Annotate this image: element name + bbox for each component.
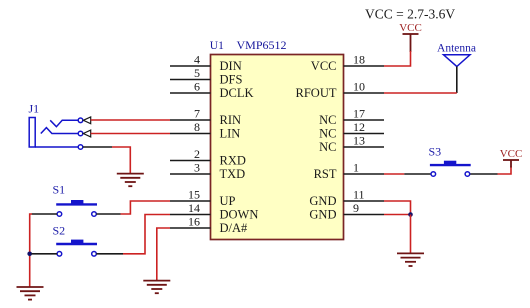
svg-text:14: 14: [188, 201, 200, 215]
IC U1 body: [211, 55, 344, 240]
svg-text:18: 18: [353, 53, 365, 67]
U1 pin 10 stub: [344, 92, 385, 94]
input arrow RIN: [83, 117, 90, 124]
wire GND node down: [410, 215, 412, 254]
svg-text:DCLK: DCLK: [220, 86, 254, 100]
svg-text:Antenna: Antenna: [437, 42, 476, 54]
svg-text:VMP6512: VMP6512: [237, 38, 287, 52]
svg-text:S1: S1: [53, 183, 66, 197]
svg-text:NC: NC: [319, 127, 336, 141]
junction GND node: [408, 212, 413, 217]
ground symbol (left rail): [17, 287, 44, 300]
svg-text:16: 16: [188, 215, 200, 229]
svg-text:S3: S3: [429, 145, 442, 159]
U1 pin 3 stub: [170, 173, 211, 175]
wire S3 to VCC: [498, 167, 512, 175]
wire RIN: [91, 119, 170, 121]
wire pin11 GND: [384, 201, 411, 215]
svg-text:13: 13: [353, 134, 365, 148]
svg-text:10: 10: [353, 80, 365, 94]
svg-text:RFOUT: RFOUT: [296, 86, 337, 100]
svg-text:4: 4: [194, 53, 200, 67]
svg-text:VCC: VCC: [500, 148, 523, 160]
wire pin18 to VCC: [384, 51, 411, 66]
ground symbol (under J1 sleeve): [117, 174, 144, 187]
svg-text:VCC = 2.7-3.6V: VCC = 2.7-3.6V: [365, 7, 455, 22]
U1 pin 16 stub: [170, 227, 211, 229]
svg-text:1: 1: [353, 161, 359, 175]
U1 left pin name labels: [220, 59, 259, 235]
svg-text:VCC: VCC: [399, 22, 422, 34]
wire J1 sleeve (black part): [83, 146, 112, 148]
svg-text:2: 2: [194, 147, 200, 161]
junction left rail node: [27, 252, 32, 257]
wire S1 to pin15 UP: [121, 201, 171, 214]
wire S1 left: [32, 213, 58, 215]
U1 pin 2 stub: [170, 160, 211, 162]
U1 pin 12 stub: [344, 133, 385, 135]
wire J1 sleeve to ground: [112, 147, 130, 174]
U1 pin 1 stub: [344, 173, 385, 175]
input arrow LIN: [83, 130, 90, 137]
antenna lead wire: [456, 67, 458, 94]
power VCC symbol (right): [503, 160, 519, 168]
svg-text:17: 17: [353, 107, 365, 121]
svg-text:5: 5: [194, 66, 200, 80]
svg-text:9: 9: [353, 201, 359, 215]
svg-text:VCC: VCC: [311, 59, 337, 73]
antenna symbol: [444, 55, 471, 67]
svg-text:3: 3: [194, 161, 200, 175]
switch S1: [56, 200, 97, 216]
svg-text:S2: S2: [53, 224, 66, 238]
svg-text:RIN: RIN: [220, 113, 242, 127]
ground symbol (under D/A#): [143, 281, 170, 294]
svg-text:GND: GND: [309, 208, 336, 222]
U1 pin 17 stub: [344, 119, 385, 121]
connector J1 (phone jack): [29, 118, 83, 150]
U1 pin 14 stub: [170, 214, 211, 216]
wire left rail to ground: [30, 214, 32, 287]
U1 pin 9 stub: [344, 214, 385, 216]
svg-text:12: 12: [353, 120, 365, 134]
wire S1 right (black part): [96, 213, 120, 215]
svg-text:U1: U1: [210, 40, 224, 52]
svg-text:7: 7: [194, 107, 200, 121]
U1 pin 5 stub: [170, 79, 211, 81]
svg-text:DOWN: DOWN: [220, 208, 259, 222]
svg-text:RXD: RXD: [220, 154, 246, 168]
svg-text:GND: GND: [309, 194, 336, 208]
switch S3: [404, 161, 497, 177]
svg-text:NC: NC: [319, 113, 336, 127]
U1 pin 7 stub: [170, 119, 211, 121]
U1 pin 4 stub: [170, 65, 211, 67]
wire pin9 GND: [384, 214, 411, 216]
U1 pin 18 stub: [344, 65, 385, 67]
U1 pin 11 stub: [344, 200, 385, 202]
wire S2 right (black part): [96, 253, 123, 255]
U1 pin 13 stub: [344, 146, 385, 148]
svg-text:11: 11: [353, 188, 365, 202]
svg-text:6: 6: [194, 80, 200, 94]
wire pin10 RFOUT to antenna: [384, 92, 457, 94]
svg-text:J1: J1: [29, 101, 40, 115]
svg-text:DFS: DFS: [220, 73, 243, 87]
wire S2 to pin14 DOWN: [123, 215, 170, 254]
wire pin16 D/A# to ground: [157, 228, 170, 281]
U1 pin 15 stub: [170, 200, 211, 202]
U1 pin 8 stub: [170, 133, 211, 135]
svg-text:D/A#: D/A#: [220, 221, 249, 235]
U1 pin 6 stub: [170, 92, 211, 94]
wire pin1 RST to S3: [384, 173, 404, 175]
switch S2: [56, 240, 97, 257]
svg-text:LIN: LIN: [220, 127, 241, 141]
svg-text:8: 8: [194, 120, 200, 134]
wire S2 left: [32, 253, 58, 255]
svg-text:RST: RST: [314, 167, 337, 181]
svg-text:15: 15: [188, 188, 200, 202]
svg-text:TXD: TXD: [220, 167, 246, 181]
power VCC symbol (top): [403, 34, 419, 52]
svg-text:UP: UP: [220, 194, 236, 208]
ground symbol (under GND pins): [397, 253, 424, 266]
svg-text:NC: NC: [319, 140, 336, 154]
U1 right pin name labels: [296, 59, 337, 222]
svg-text:DIN: DIN: [220, 59, 242, 73]
wire LIN: [91, 133, 170, 135]
